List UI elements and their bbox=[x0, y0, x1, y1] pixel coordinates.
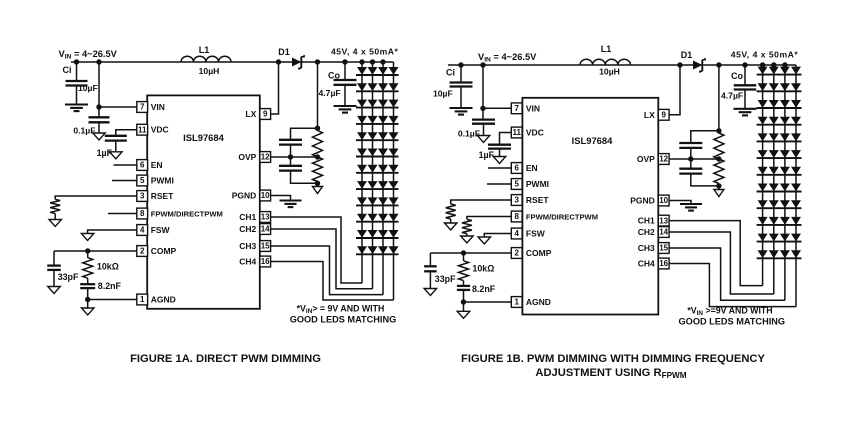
wire RSET (1B) bbox=[451, 200, 512, 204]
node LED column 1 rail (1A) bbox=[359, 59, 364, 64]
svg-text:VIN = 4~26.5V: VIN = 4~26.5V bbox=[478, 52, 537, 64]
wire PWMI stub (1B) bbox=[487, 183, 511, 185]
svg-text:15: 15 bbox=[261, 242, 270, 251]
wire LX (1A) bbox=[270, 62, 278, 114]
ground PGND (1B) bbox=[680, 203, 702, 205]
resistor 10k (1B) bbox=[463, 253, 465, 261]
svg-text:CH2: CH2 bbox=[239, 224, 256, 234]
svg-text:FSW: FSW bbox=[526, 229, 546, 239]
wire RFPWM (1B) bbox=[467, 217, 511, 220]
node LX rail (1B) bbox=[677, 62, 682, 67]
pin 15 CH3 (1B) bbox=[658, 243, 669, 254]
svg-text:7: 7 bbox=[514, 104, 519, 113]
pin 1 AGND (1B) bbox=[511, 297, 522, 308]
wire LED column 2 (1B) bbox=[773, 65, 775, 294]
svg-text:CH4: CH4 bbox=[239, 257, 256, 267]
resistor 10k (1A) bbox=[87, 251, 89, 258]
svg-text:PGND: PGND bbox=[232, 191, 257, 201]
pin 11 VDC (1B) bbox=[511, 127, 522, 138]
svg-text:2: 2 bbox=[514, 249, 519, 258]
svg-text:5: 5 bbox=[514, 180, 519, 189]
capacitor 8.2nF (1A) bbox=[87, 278, 89, 284]
svg-text:14: 14 bbox=[659, 228, 668, 237]
wire LED column 2 (1A) bbox=[372, 62, 374, 289]
ground Ci (1A) bbox=[65, 103, 88, 105]
node OVP rail (1A) bbox=[315, 59, 320, 64]
resistor OVP lower (1A) bbox=[313, 157, 323, 182]
pin 13 CH1 (1A) bbox=[260, 212, 271, 223]
svg-text:FPWM/DIRECTPWM: FPWM/DIRECTPWM bbox=[151, 210, 223, 219]
svg-text:45V, 4 x 50mA*: 45V, 4 x 50mA* bbox=[331, 47, 399, 57]
svg-text:EN: EN bbox=[151, 160, 163, 170]
capacitor 1uF (1B) bbox=[488, 144, 511, 146]
LED row 10 (1B) bbox=[758, 217, 768, 225]
svg-text:10µF: 10µF bbox=[433, 89, 453, 99]
node LED column 3 rail (1A) bbox=[380, 59, 385, 64]
wire FSW (1B) bbox=[484, 234, 511, 238]
svg-text:5: 5 bbox=[140, 176, 145, 185]
ground 1uF (1B) bbox=[493, 157, 506, 164]
LED row 7 (1B) bbox=[758, 167, 768, 175]
svg-text:L1: L1 bbox=[601, 44, 612, 54]
svg-text:1µF: 1µF bbox=[479, 150, 495, 160]
svg-text:8.2nF: 8.2nF bbox=[98, 281, 122, 291]
node Co rail (1B) bbox=[742, 62, 747, 67]
svg-text:33pF: 33pF bbox=[435, 274, 456, 284]
ground 1uF (1A) bbox=[110, 152, 123, 159]
svg-text:FPWM/DIRECTPWM: FPWM/DIRECTPWM bbox=[526, 213, 598, 222]
svg-text:CH3: CH3 bbox=[638, 243, 655, 253]
inductor L1 (1B) bbox=[580, 59, 631, 65]
svg-text:8: 8 bbox=[514, 212, 519, 221]
node AGND junction (1B) bbox=[461, 299, 466, 304]
svg-text:1: 1 bbox=[514, 298, 519, 307]
svg-text:33pF: 33pF bbox=[58, 272, 79, 282]
svg-text:7: 7 bbox=[140, 103, 145, 112]
pin 2 COMP (1A) bbox=[137, 246, 148, 257]
ground AGND (1A) bbox=[87, 300, 89, 309]
pin 11 VDC (1A) bbox=[137, 124, 148, 135]
wire EN stub (1B) bbox=[488, 167, 511, 169]
wire top rail (1A) bbox=[71, 61, 394, 63]
pin 4 FSW (1B) bbox=[511, 228, 522, 239]
LED row 12 (1A) bbox=[357, 246, 367, 254]
wire VIN drop (1B) bbox=[482, 65, 484, 108]
svg-text:RSET: RSET bbox=[151, 191, 174, 201]
LED row 6 (1A) bbox=[357, 149, 367, 157]
ground 33pF (1A) bbox=[48, 287, 61, 294]
svg-text:ADJUSTMENT USING RFPWM: ADJUSTMENT USING RFPWM bbox=[535, 367, 686, 380]
svg-text:0.1µF: 0.1µF bbox=[73, 126, 95, 136]
LED row 4 (1A) bbox=[357, 116, 367, 124]
pin 7 VIN (1A) bbox=[137, 102, 148, 113]
LED row 11 (1B) bbox=[758, 234, 768, 242]
pin 12 OVP (1B) bbox=[658, 154, 669, 165]
LED row 2 (1B) bbox=[758, 83, 768, 91]
wire VDC (1B) bbox=[500, 133, 512, 145]
wire CH4 route (1B) bbox=[669, 264, 796, 307]
svg-text:13: 13 bbox=[659, 216, 668, 225]
svg-text:PWMI: PWMI bbox=[151, 176, 174, 186]
svg-text:CH1: CH1 bbox=[638, 216, 655, 226]
svg-text:6: 6 bbox=[140, 161, 145, 170]
wire OVP divider drop (1A) bbox=[317, 62, 319, 128]
node OVP bottom (1A) bbox=[315, 181, 320, 186]
ground OVP (1A) bbox=[317, 183, 319, 186]
svg-text:2: 2 bbox=[140, 247, 145, 256]
node OVP top (1B) bbox=[716, 128, 721, 133]
wire FPWM stub (1A) bbox=[108, 213, 137, 215]
wire CH3 route (1A) bbox=[270, 246, 383, 295]
node AGND junction (1A) bbox=[85, 297, 90, 302]
wire LED column 1 (1B) bbox=[762, 65, 764, 286]
capacitor 1uF (1A) bbox=[105, 135, 127, 137]
svg-text:10µF: 10µF bbox=[78, 83, 98, 93]
svg-text:12: 12 bbox=[659, 155, 668, 164]
pin 3 RSET (1B) bbox=[511, 195, 522, 206]
svg-text:EN: EN bbox=[526, 163, 538, 173]
pin 6 EN (1B) bbox=[511, 163, 522, 174]
svg-text:3: 3 bbox=[514, 196, 519, 205]
wire PGND (1B) bbox=[669, 201, 691, 205]
svg-text:4: 4 bbox=[140, 226, 145, 235]
wire PWMI stub (1A) bbox=[112, 180, 137, 182]
svg-text:CH2: CH2 bbox=[638, 227, 655, 237]
svg-text:VDC: VDC bbox=[151, 125, 169, 135]
svg-text:CH1: CH1 bbox=[239, 212, 256, 222]
capacitor OVP upper (1B) bbox=[679, 142, 702, 144]
svg-text:ISL97684: ISL97684 bbox=[572, 135, 613, 146]
wire OVP pin (1B) bbox=[669, 158, 719, 160]
pin 8 FPWM/DIRECTPWM (1B) bbox=[511, 211, 522, 222]
wire CH2 route (1A) bbox=[270, 229, 372, 289]
wire PGND (1A) bbox=[270, 196, 290, 201]
resistor RFPWM (1B) bbox=[462, 219, 472, 233]
capacitor OVP lower (1A) bbox=[290, 157, 292, 166]
node LED column 2 rail (1A) bbox=[370, 59, 375, 64]
svg-text:FIGURE 1A. DIRECT PWM DIMMING: FIGURE 1A. DIRECT PWM DIMMING bbox=[130, 353, 321, 365]
svg-text:1: 1 bbox=[140, 295, 145, 304]
svg-text:COMP: COMP bbox=[526, 248, 552, 258]
pin 16 CH4 (1A) bbox=[260, 256, 271, 267]
wire RSET (1A) bbox=[55, 196, 137, 199]
svg-text:9: 9 bbox=[661, 111, 666, 120]
svg-text:GOOD LEDS MATCHING: GOOD LEDS MATCHING bbox=[290, 315, 397, 325]
node OVP top (1A) bbox=[315, 126, 320, 131]
svg-text:PWMI: PWMI bbox=[526, 179, 549, 189]
svg-text:10kΩ: 10kΩ bbox=[472, 264, 494, 274]
svg-text:10: 10 bbox=[659, 196, 668, 205]
wire LED column 1 (1A) bbox=[361, 62, 363, 283]
pin 16 CH4 (1B) bbox=[658, 258, 669, 269]
pin 14 CH2 (1B) bbox=[658, 227, 669, 238]
pin 6 EN (1A) bbox=[137, 160, 148, 171]
wire CH2 route (1B) bbox=[669, 232, 774, 294]
capacitor 0.1uF (1B) bbox=[482, 108, 484, 119]
pin 15 CH3 (1A) bbox=[260, 241, 271, 252]
wire VDC (1A) bbox=[116, 130, 137, 136]
ground AGND (1B) bbox=[463, 302, 465, 311]
resistor RSET (1B) bbox=[446, 204, 456, 219]
capacitor 0.1uF (1A) bbox=[98, 107, 100, 117]
svg-text:Co: Co bbox=[731, 71, 743, 81]
svg-text:10kΩ: 10kΩ bbox=[97, 262, 119, 272]
node Co rail (1A) bbox=[342, 59, 347, 64]
capacitor Ci (1A) bbox=[76, 62, 78, 81]
LED row 3 (1B) bbox=[758, 100, 768, 108]
ground FSW (1B) bbox=[478, 237, 491, 244]
LED row 4 (1B) bbox=[758, 117, 768, 125]
node OVP mid res (1A) bbox=[315, 154, 320, 159]
node COMP junction (1B) bbox=[461, 250, 466, 255]
node OVP mid cap (1B) bbox=[688, 156, 693, 161]
ground Co (1B) bbox=[734, 108, 757, 110]
svg-text:*VIN> = 9V AND WITH: *VIN> = 9V AND WITH bbox=[297, 304, 385, 316]
capacitor 33pF (1B) bbox=[429, 253, 431, 266]
svg-text:11: 11 bbox=[138, 125, 147, 134]
node OVP bottom (1B) bbox=[716, 183, 721, 188]
svg-text:VIN: VIN bbox=[151, 102, 165, 112]
capacitor Co (1A) bbox=[344, 62, 346, 80]
LED row 5 (1A) bbox=[357, 132, 367, 140]
pin 1 AGND (1A) bbox=[137, 294, 148, 305]
capacitor 8.2nF (1B) bbox=[463, 281, 465, 286]
svg-text:GOOD LEDS MATCHING: GOOD LEDS MATCHING bbox=[679, 316, 786, 326]
pin 4 FSW (1A) bbox=[137, 225, 148, 236]
ground 0.1uF (1B) bbox=[477, 136, 490, 143]
svg-text:LX: LX bbox=[644, 110, 655, 120]
node input junction VIN (1B) bbox=[480, 62, 485, 67]
svg-text:D1: D1 bbox=[278, 47, 290, 57]
wire FSW (1A) bbox=[88, 230, 137, 234]
svg-text:9: 9 bbox=[263, 110, 268, 119]
resistor OVP upper (1B) bbox=[714, 133, 724, 159]
resistor RSET (1A) bbox=[50, 199, 60, 213]
svg-text:OVP: OVP bbox=[637, 154, 655, 164]
wire OVP cap branch top (1A) bbox=[291, 128, 318, 140]
ground 33pF (1B) bbox=[424, 289, 437, 296]
node OVP rail (1B) bbox=[716, 62, 721, 67]
svg-text:AGND: AGND bbox=[151, 295, 176, 305]
wire CH1 route (1A) bbox=[270, 217, 362, 283]
wire LED column 3 (1A) bbox=[382, 62, 384, 295]
wire VIN to pin7 (1A) bbox=[99, 106, 137, 108]
svg-text:3: 3 bbox=[140, 192, 145, 201]
node input junction Ci (1B) bbox=[458, 62, 463, 67]
node LED column 1 rail (1B) bbox=[760, 62, 765, 67]
ground RFPWM (1B) bbox=[466, 234, 468, 236]
svg-text:AGND: AGND bbox=[526, 297, 551, 307]
node input junction Ci (1A) bbox=[74, 59, 79, 64]
LED row 6 (1B) bbox=[758, 150, 768, 158]
svg-text:CH3: CH3 bbox=[239, 241, 256, 251]
svg-text:FSW: FSW bbox=[151, 225, 171, 235]
wire AGND (1A) bbox=[88, 299, 137, 301]
node VIN (1A) bbox=[96, 104, 101, 109]
wire LED column 4 (1B) bbox=[795, 65, 797, 307]
node LED column 3 rail (1B) bbox=[782, 62, 787, 67]
ground FSW (1A) bbox=[81, 234, 94, 241]
node OVP mid res (1B) bbox=[716, 156, 721, 161]
svg-text:0.1µF: 0.1µF bbox=[458, 129, 480, 139]
ground OVP (1B) bbox=[718, 186, 720, 190]
LED row 9 (1B) bbox=[758, 200, 768, 208]
pin 10 PGND (1A) bbox=[260, 190, 271, 201]
wire COMP (1B) bbox=[430, 252, 511, 254]
op-amp U1 ISL97684 body (1B) bbox=[522, 98, 658, 315]
wire VIN drop (1A) bbox=[98, 62, 100, 107]
pin 2 COMP (1B) bbox=[511, 248, 522, 259]
svg-text:14: 14 bbox=[261, 225, 270, 234]
capacitor 33pF (1A) bbox=[53, 251, 55, 266]
capacitor Ci (1B) bbox=[460, 65, 462, 83]
LED row 10 (1A) bbox=[357, 214, 367, 222]
wire CH4 route (1A) bbox=[270, 262, 393, 301]
node LED column 2 rail (1B) bbox=[771, 62, 776, 67]
LED row 9 (1A) bbox=[357, 197, 367, 205]
capacitor Co (1B) bbox=[744, 65, 746, 85]
ground Ci (1B) bbox=[450, 107, 473, 109]
LED row 11 (1A) bbox=[357, 230, 367, 238]
pin 9 LX (1B) bbox=[658, 109, 669, 120]
svg-text:6: 6 bbox=[514, 164, 519, 173]
op-amp U1 ISL97684 body (1A) bbox=[147, 95, 260, 308]
svg-text:Ci: Ci bbox=[446, 68, 455, 78]
wire top rail (1B) bbox=[448, 64, 796, 66]
wire CH3 route (1B) bbox=[669, 248, 785, 300]
svg-text:FIGURE 1B. PWM DIMMING WITH D: FIGURE 1B. PWM DIMMING WITH DIMMING FREQ… bbox=[461, 353, 765, 365]
svg-text:12: 12 bbox=[261, 153, 270, 162]
wire OVP pin (1A) bbox=[270, 156, 317, 158]
capacitor OVP upper (1A) bbox=[279, 139, 302, 141]
wire OVP divider drop (1B) bbox=[718, 65, 720, 131]
svg-text:OVP: OVP bbox=[238, 152, 256, 162]
svg-text:4.7µF: 4.7µF bbox=[721, 91, 743, 101]
capacitor OVP lower (1B) bbox=[690, 159, 692, 169]
node input junction VIN (1A) bbox=[96, 59, 101, 64]
pin 7 VIN (1B) bbox=[511, 103, 522, 114]
LED row 1 (1A) bbox=[357, 67, 367, 75]
svg-text:8: 8 bbox=[140, 209, 145, 218]
svg-text:COMP: COMP bbox=[151, 246, 177, 256]
pin 5 PWMI (1A) bbox=[137, 175, 148, 186]
svg-text:VIN: VIN bbox=[526, 103, 540, 113]
svg-text:L1: L1 bbox=[199, 45, 210, 55]
node LX rail (1A) bbox=[276, 59, 281, 64]
ground RSET (1A) bbox=[54, 214, 56, 220]
ground Co (1A) bbox=[334, 105, 357, 107]
LED row 5 (1B) bbox=[758, 133, 768, 141]
wire OVP cap branch top (1B) bbox=[691, 131, 719, 143]
svg-text:LX: LX bbox=[245, 109, 256, 119]
pin 14 CH2 (1A) bbox=[260, 224, 271, 235]
LED row 3 (1A) bbox=[357, 100, 367, 108]
svg-text:PGND: PGND bbox=[630, 196, 655, 206]
svg-text:10µH: 10µH bbox=[199, 66, 220, 76]
LED row 12 (1B) bbox=[758, 250, 768, 258]
svg-text:VIN = 4~26.5V: VIN = 4~26.5V bbox=[59, 49, 118, 61]
LED row 2 (1A) bbox=[357, 83, 367, 91]
node COMP junction (1A) bbox=[85, 248, 90, 253]
LED row 8 (1A) bbox=[357, 181, 367, 189]
svg-text:13: 13 bbox=[261, 213, 270, 222]
wire EN stub (1A) bbox=[114, 164, 137, 166]
svg-text:11: 11 bbox=[512, 128, 521, 137]
wire LED column 3 (1B) bbox=[784, 65, 786, 300]
pin 5 PWMI (1B) bbox=[511, 179, 522, 190]
wire COMP (1A) bbox=[54, 250, 137, 252]
svg-text:16: 16 bbox=[261, 257, 270, 266]
svg-text:8.2nF: 8.2nF bbox=[472, 284, 496, 294]
wire VIN to pin7 (1B) bbox=[483, 107, 511, 109]
wire CH1 route (1B) bbox=[669, 221, 763, 286]
ground PGND (1A) bbox=[280, 199, 302, 201]
wire AGND (1B) bbox=[464, 301, 512, 303]
node OVP mid cap (1A) bbox=[288, 154, 293, 159]
pin 13 CH1 (1B) bbox=[658, 215, 669, 226]
svg-text:*VIN >=9V AND WITH: *VIN >=9V AND WITH bbox=[687, 306, 772, 318]
resistor OVP upper (1A) bbox=[313, 131, 323, 158]
svg-text:RSET: RSET bbox=[526, 195, 549, 205]
svg-text:VDC: VDC bbox=[526, 128, 544, 138]
svg-text:4.7µF: 4.7µF bbox=[319, 88, 341, 98]
node VIN (1B) bbox=[480, 106, 485, 111]
LED row 1 (1B) bbox=[758, 67, 768, 75]
wire LED column 4 (1A) bbox=[393, 62, 395, 300]
LED row 7 (1A) bbox=[357, 165, 367, 173]
wire LX (1B) bbox=[669, 65, 680, 115]
svg-text:45V, 4 x 50mA*: 45V, 4 x 50mA* bbox=[731, 50, 799, 60]
ground RSET (1B) bbox=[450, 219, 452, 223]
svg-text:4: 4 bbox=[514, 229, 519, 238]
svg-text:10: 10 bbox=[261, 191, 270, 200]
svg-text:15: 15 bbox=[659, 244, 668, 253]
inductor L1 (1A) bbox=[181, 56, 231, 62]
svg-text:ISL97684: ISL97684 bbox=[183, 132, 224, 143]
pin 10 PGND (1B) bbox=[658, 195, 669, 206]
svg-text:Co: Co bbox=[328, 71, 340, 81]
svg-text:Ci: Ci bbox=[63, 65, 72, 75]
resistor OVP lower (1B) bbox=[714, 159, 724, 184]
LED row 8 (1B) bbox=[758, 184, 768, 192]
svg-text:10µH: 10µH bbox=[599, 67, 620, 77]
svg-text:16: 16 bbox=[659, 259, 668, 268]
ground 0.1uF (1A) bbox=[93, 133, 106, 140]
pin 8 FPWM/DIRECTPWM (1A) bbox=[137, 208, 148, 219]
svg-text:D1: D1 bbox=[681, 50, 693, 60]
svg-text:CH4: CH4 bbox=[638, 259, 655, 269]
pin 12 OVP (1A) bbox=[260, 152, 271, 163]
pin 3 RSET (1A) bbox=[137, 191, 148, 202]
pin 9 LX (1A) bbox=[260, 109, 271, 120]
